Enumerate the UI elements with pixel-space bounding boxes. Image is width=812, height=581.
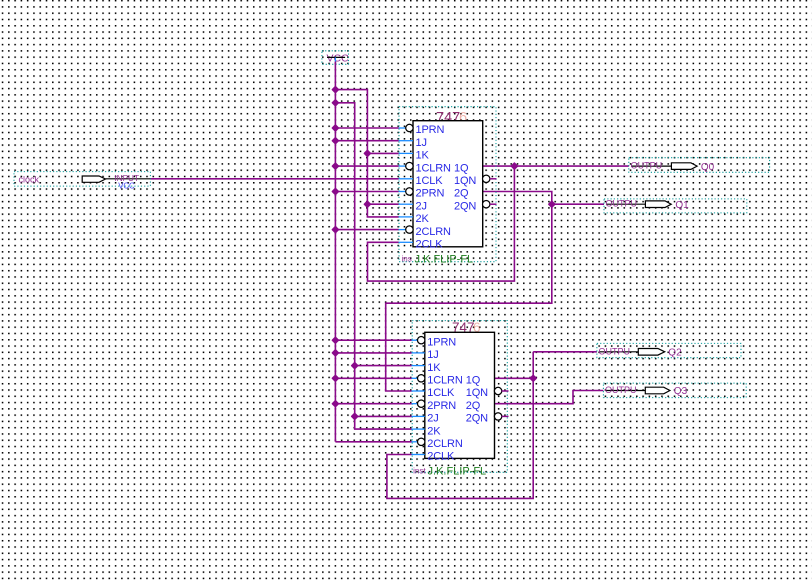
svg-text:1CLRN: 1CLRN [427, 375, 463, 387]
svg-text:2PRN: 2PRN [427, 400, 456, 412]
U2 pin stub 1J [412, 352, 425, 354]
wire VCC to U1 2CLRN [335, 229, 398, 231]
U2 pin stub 1CLK [412, 390, 425, 392]
U1 pin stub 2CLK [399, 241, 413, 243]
wire VCC B to U2 2J [355, 415, 412, 417]
U1 pin stub 2CLRN [399, 229, 406, 231]
svg-text:J.K.FLIP-FL: J.K.FLIP-FL [415, 254, 474, 266]
wire VCC to U2 2PRN [335, 403, 411, 405]
svg-text:2PRN: 2PRN [416, 188, 445, 200]
svg-text:Q3: Q3 [674, 386, 688, 397]
svg-text:1CLK: 1CLK [427, 387, 455, 399]
svg-text:2K: 2K [427, 425, 441, 437]
wire VCC to U2 1PRN [335, 339, 411, 341]
output pin Q1 [604, 199, 747, 213]
svg-text:OUTPU: OUTPU [605, 385, 637, 395]
wire VCC to U2 1J [335, 352, 411, 354]
U2 pin stub 2J [412, 415, 425, 417]
svg-text:OUTPU: OUTPU [599, 346, 631, 356]
svg-text:Q0: Q0 [701, 162, 715, 173]
svg-text:2CLRN: 2CLRN [416, 226, 452, 238]
wire VCC to U1 1J [335, 140, 398, 142]
U1 pin 1QN bubble and stub [483, 175, 490, 182]
svg-text:1K: 1K [416, 150, 430, 162]
U2 pin stub 2PRN [412, 403, 418, 405]
svg-text:ins: ins [402, 254, 412, 263]
svg-text:1Q: 1Q [454, 162, 469, 174]
svg-text:2CLK: 2CLK [427, 451, 455, 463]
svg-text:2CLK: 2CLK [416, 239, 444, 251]
svg-text:1K: 1K [427, 362, 441, 374]
svg-text:1CLRN: 1CLRN [416, 162, 452, 174]
junction dots on vertical B [352, 363, 358, 420]
svg-text:1Q: 1Q [466, 375, 481, 387]
U2 pin labels [427, 336, 488, 462]
U1 pin stub 1K [399, 152, 413, 154]
U2 pin 1QN bubble and stub [494, 387, 501, 394]
U1 pin stub 2PRN [399, 191, 406, 193]
output pin Q0 [629, 158, 770, 173]
wire VCC branch to vertical B [335, 103, 411, 429]
wire net Q1 : U1 2Q to output and U2 1CLK [386, 192, 552, 392]
wire net Q0 : U1 1Q to output and U1 2CLK [483, 165, 629, 167]
flip-flop U2 7476 [412, 320, 509, 478]
U1 pin 2QN bubble and stub [483, 201, 490, 208]
wire VCC branch to vertical A [335, 90, 398, 217]
svg-text:2Q: 2Q [466, 400, 481, 412]
U1 pin stub 2K [399, 216, 413, 218]
junction dots on vertical A [364, 150, 370, 207]
wire net Q3 : U2 2Q to output [495, 391, 604, 404]
U2 pin stub 2K [412, 428, 425, 430]
U1 pin stub 1PRN [399, 127, 406, 129]
U1 pin stub 2J [399, 203, 413, 205]
U2 pin stub 2CLK [412, 454, 425, 456]
U2 pin stub 1PRN [412, 339, 418, 341]
svg-text:2K: 2K [416, 213, 430, 225]
svg-text:1J: 1J [427, 349, 438, 361]
wire VCC B to U2 1K [355, 365, 412, 367]
svg-text:J.K.FLIP-FL: J.K.FLIP-FL [428, 466, 487, 478]
flip-flop U1 7476 [399, 107, 497, 266]
svg-text:1PRN: 1PRN [427, 336, 456, 348]
wire VCC to U1 2PRN [335, 191, 398, 193]
wire VCC A to U1 1K [367, 152, 398, 154]
junction dot net Q1 [549, 201, 555, 207]
svg-text:OUTPU: OUTPU [631, 161, 663, 171]
svg-text:1J: 1J [416, 137, 427, 149]
output pin Q2 [597, 343, 741, 358]
svg-text:Q1: Q1 [675, 200, 689, 211]
svg-text:OUTPU: OUTPU [606, 199, 638, 209]
power symbol VCC [322, 51, 349, 65]
wire VCC A to U1 2J [367, 203, 398, 205]
output pin Q3 [603, 383, 746, 398]
wire VCC to U2 2CLRN [335, 441, 411, 443]
svg-text:1QN: 1QN [454, 175, 476, 187]
junction dots on VCC rail [332, 87, 338, 407]
wire clock net [150, 178, 398, 180]
wire VCC to U1 1CLRN [335, 165, 398, 167]
wire VCC rail vertical [334, 62, 336, 442]
U1 pin stub 1CLRN [399, 165, 406, 167]
svg-text:2J: 2J [427, 413, 438, 425]
svg-text:2J: 2J [416, 200, 427, 212]
svg-text:1CLK: 1CLK [416, 175, 444, 187]
U2 pin stub 1CLRN [412, 377, 418, 379]
svg-text:2QN: 2QN [454, 200, 476, 212]
junction dot net Q0 [511, 163, 517, 169]
U1 pin labels [416, 124, 477, 250]
input pin clock [14, 172, 150, 191]
U1 pin stub 1J [399, 140, 413, 142]
U2 pin stub 2CLRN [412, 441, 418, 443]
svg-text:clock: clock [19, 174, 40, 184]
svg-text:VCC: VCC [327, 53, 350, 65]
svg-text:2QN: 2QN [466, 413, 488, 425]
svg-text:2CLRN: 2CLRN [427, 438, 463, 450]
U2 pin 2QN bubble and stub [494, 413, 501, 420]
svg-text:1QN: 1QN [466, 387, 488, 399]
svg-text:Q2: Q2 [668, 348, 682, 359]
U1 pin stub 1CLK [399, 178, 413, 180]
svg-text:VCC: VCC [118, 182, 135, 191]
wire VCC to U2 1CLRN [335, 377, 411, 379]
junction dot net Q2 [530, 375, 536, 381]
wire net Q2 : U2 1Q to output and U2 2CLK [495, 377, 534, 379]
svg-text:1PRN: 1PRN [416, 124, 445, 136]
svg-text:inst: inst [413, 466, 426, 475]
wire VCC to U1 1PRN [335, 127, 398, 129]
svg-text:2Q: 2Q [454, 188, 469, 200]
U2 pin stub 1K [412, 365, 425, 367]
